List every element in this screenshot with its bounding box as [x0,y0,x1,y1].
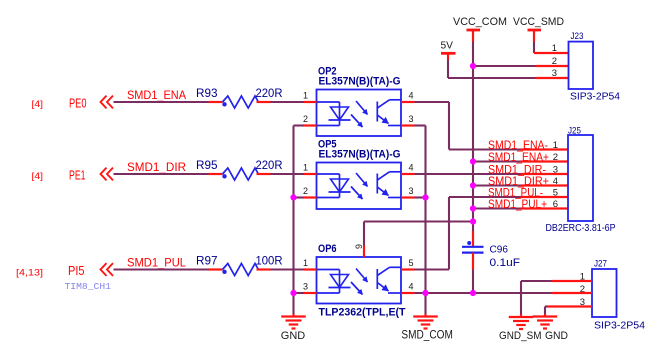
wire OP6 pin 4 to C96 node [415,292,474,294]
value label 100R of R97 [256,254,283,268]
wire R95 to OP5 pin 1 [271,173,305,175]
svg-text:3: 3 [408,114,413,124]
svg-text:SMD1_PUL+: SMD1_PUL+ [488,197,547,211]
svg-text:4: 4 [408,163,413,173]
port PE1 name [69,168,86,183]
wire VCC_SMD to J23 pin 1 [534,42,569,54]
wire OP5 pin 4 to J25 pin 3 (SMD1_DIR-) [415,173,569,175]
svg-text:R97: R97 [196,254,218,268]
svg-text:J25: J25 [568,126,581,137]
svg-text:4: 4 [408,282,413,292]
J23 pin 1 number [552,43,557,54]
svg-text:VCC_SMD: VCC_SMD [513,16,564,28]
wire to J25 pin 4 (SMD1_DIR+) [473,184,568,186]
svg-text:2: 2 [553,152,558,163]
designator label J23 [571,31,584,42]
wire PI5 to R97 [114,268,209,270]
wire OP2 pin 2 to GND rail [294,126,305,317]
part number label of OP6 [319,307,407,319]
svg-text:J27: J27 [594,259,607,270]
designator label R97 [196,254,218,268]
svg-text:PE1: PE1 [69,168,86,183]
resistor R95 [209,168,271,180]
svg-text:1: 1 [303,163,308,173]
power port VCC_SMD [528,30,542,42]
svg-text:4: 4 [408,91,413,101]
junction VCC_COM / SMD1_ENA+ [470,158,476,164]
svg-text:3: 3 [553,165,558,176]
designator label R95 [196,158,218,172]
power port VCC_COM [467,30,481,42]
svg-text:SMD1_DIR+: SMD1_DIR+ [488,174,549,188]
wire VCC_COM to J23 pin 2 [473,65,569,67]
wire OP2 pin 3 to emitter rail [415,126,426,294]
wire VCC_COM rail [472,42,474,222]
net label SMD1_DIR- [488,163,546,177]
wire to J25 pin 2 (SMD1_ENA+) [473,160,568,162]
net label SMD1_ENA [127,88,187,102]
connector J23 body [569,42,594,89]
part label SIP3-2P54 of J27 [594,321,646,332]
label 5V [441,40,454,51]
svg-text:5V: 5V [441,40,454,51]
svg-text:2: 2 [552,56,557,67]
net label SMD1_ENA- [488,138,548,152]
resistor R97 [209,264,271,276]
label GND (J27) [545,330,568,342]
ground symbol SMD_COM [413,317,438,329]
J25 pin 1 number [553,140,558,151]
svg-text:GND_SM: GND_SM [499,330,542,342]
svg-text:[4,13]: [4,13] [16,268,43,279]
label SMD_COM [401,330,453,342]
svg-text:SMD1_DIR: SMD1_DIR [127,160,186,174]
svg-text:PE0: PE0 [69,96,87,111]
net label SMD1_PUL+ [488,197,547,211]
resistor R93 [209,96,271,108]
designator label J25 [568,126,581,137]
svg-text:EL357N(B)(TA)-G: EL357N(B)(TA)-G [319,149,401,161]
net label SMD1_DIR [127,160,186,174]
label VCC_SMD [513,16,564,28]
svg-text:GND: GND [545,330,568,342]
ground symbol GND_SM [509,317,534,329]
J25 pin 6 number [553,199,558,210]
svg-text:EL357N(B)(TA)-G: EL357N(B)(TA)-G [319,76,401,88]
junction VCC_COM / J23 pin2 [470,63,476,69]
svg-text:GND: GND [281,330,305,342]
wire OP6 pin 5 to J25 pin 5 (SMD1_PUL-) [415,197,569,270]
svg-text:C96: C96 [490,245,509,256]
svg-text:PI5: PI5 [68,263,85,278]
ground symbol GND (J27) [533,317,558,329]
svg-text:DB2ERC-3.81-6P: DB2ERC-3.81-6P [546,223,616,234]
svg-text:1: 1 [552,43,557,54]
optocoupler OP5 body [304,163,415,210]
svg-text:5: 5 [553,188,558,199]
svg-text:[4]: [4] [32,99,44,110]
designator label OP5 [318,139,337,151]
svg-text:220R: 220R [256,158,283,172]
J25 pin 4 number [553,176,558,187]
wire J27 pin 1 to GND_SM [521,281,592,317]
svg-text:R95: R95 [196,158,218,172]
capacitor C96 [462,222,484,294]
junction at OP6 pin4 / emitter rail [422,290,428,296]
junction at OP5 pin2 / GND rail [290,194,296,200]
svg-text:J23: J23 [571,31,584,42]
junction at OP6 pin3 / GND rail [290,290,296,296]
svg-text:SMD1_PUL: SMD1_PUL [127,256,186,270]
wire 5V to J23 pin 3 [448,60,569,78]
svg-text:1: 1 [303,258,308,268]
OP6 pin 3 number [303,282,308,292]
OP5 pin 2 number [303,186,308,196]
svg-text:6: 6 [553,199,558,210]
svg-text:2: 2 [303,114,308,124]
svg-text:R93: R93 [196,86,218,100]
svg-text:SMD1_ENA: SMD1_ENA [127,88,187,102]
port PE0 name [69,96,87,111]
OP5 pin 3 number [408,186,413,196]
wire OP5 pin 3 stub [415,196,426,198]
connector J25 body [568,135,593,221]
OP6 pin 5 number [408,258,413,268]
svg-text:SIP3-2P54: SIP3-2P54 [570,92,621,103]
J25 pin 2 number [553,152,558,163]
svg-text:2: 2 [303,186,308,196]
optocoupler OP2 body [304,90,415,137]
port PI5 name [68,263,85,278]
wire R97 to OP6 pin 1 [271,268,305,270]
OP5 pin 4 number [408,163,413,173]
J27 pin 3 number [580,297,585,308]
value label 220R of R93 [256,86,283,100]
junction VCC_COM / SMD1_DIR+ [470,182,476,188]
OP6 pin 6 number [354,244,364,249]
value label 0.1uF of C96 [490,257,521,269]
port PI5 chevron [101,263,114,276]
svg-text:VCC_COM: VCC_COM [453,16,507,28]
part number label of OP5 [319,149,401,161]
wire J27 pin 3 to GND [545,307,592,317]
svg-text:1: 1 [553,140,558,151]
svg-text:SIP3-2P54: SIP3-2P54 [594,321,646,332]
J23 pin 2 number [552,56,557,67]
wire to J25 pin 6 (SMD1_PUL+) [473,207,568,209]
svg-text:OP6: OP6 [318,243,337,255]
svg-text:SMD1_ENA+: SMD1_ENA+ [488,150,549,164]
label VCC_COM [453,16,507,28]
wire PE0 to R93 [114,101,209,103]
OP6 pin 1 number [303,258,308,268]
net label SMD1_PUL- [488,186,543,200]
junction VCC rail / OP6 pin6 / C96 [470,218,476,224]
wire OP5 pin 2 stub [294,196,305,198]
power port 5V [441,53,456,60]
designator label R93 [196,86,218,100]
connector J27 body [592,269,617,317]
part label DB2ERC-3.81-6P of J25 [546,223,616,234]
svg-text:3: 3 [303,282,308,292]
net label SMD1_PUL [127,256,186,270]
J27 pin 1 number [580,272,585,283]
J23 pin 3 number [552,68,557,79]
port PE1 sheet-ref [4] [32,171,44,182]
J25 pin 3 number [553,165,558,176]
OP2 pin 2 number [303,114,308,124]
svg-text:TLP2362(TPL,E(T: TLP2362(TPL,E(T [319,307,407,319]
junction at OP5 pin3 / emitter rail [422,194,428,200]
wire OP6 pin 6 to VCC_COM rail [364,222,473,246]
svg-text:100R: 100R [256,254,283,268]
label TIM8_CH1 [65,282,112,292]
OP6 pin 4 number [408,282,413,292]
port PE0 chevron [101,96,114,109]
designator label C96 [490,245,509,256]
OP2 pin 3 number [408,114,413,124]
svg-text:1: 1 [303,91,308,101]
designator label J27 [594,259,607,270]
svg-text:220R: 220R [256,86,283,100]
svg-text:4: 4 [553,176,558,187]
wire OP6 pin 3 stub [294,292,305,294]
svg-text:SMD_COM: SMD_COM [401,330,453,342]
part label SIP3-2P54 of J23 [570,92,621,103]
svg-text:0.1uF: 0.1uF [490,257,521,269]
label GND (opto cathodes) [281,330,305,342]
svg-text:TIM8_CH1: TIM8_CH1 [65,282,112,292]
net label SMD1_ENA+ [488,150,549,164]
svg-text:5: 5 [408,258,413,268]
J25 pin 5 number [553,188,558,199]
part number label of OP2 [319,76,401,88]
wire R93 to OP2 pin 1 [271,101,305,103]
port PE1 chevron [101,168,114,181]
svg-text:6: 6 [354,244,364,249]
svg-text:3: 3 [552,68,557,79]
net label SMD1_DIR+ [488,174,549,188]
optocoupler OP6 body [304,257,415,304]
junction C96 / SMD_COM row [470,290,476,296]
port PI5 sheet-ref [4,13] [16,268,43,279]
OP6 pin 6 stub [363,246,365,258]
svg-text:[4]: [4] [32,171,44,182]
OP5 pin 1 number [303,163,308,173]
value label 220R of R95 [256,158,283,172]
wire emitter rail to SMD_COM [424,293,426,317]
wire OP2 pin 4 to J25 pin 1 (SMD1_ENA-) [415,102,569,150]
wire SMD_COM row to J27 pin 2 [473,292,592,294]
OP2 pin 4 number [408,91,413,101]
svg-text:3: 3 [408,186,413,196]
OP2 pin 1 number [303,91,308,101]
wire PE1 to R95 [114,173,209,175]
J27 pin 2 number [580,284,585,295]
port PE0 sheet-ref [4] [32,99,44,110]
designator label OP6 [318,243,337,255]
designator label OP2 [318,66,337,78]
junction VCC_COM / SMD1_PUL+ [470,205,476,211]
ground symbol GND (opto cathodes) [281,317,306,329]
label GND_SM [499,330,542,342]
